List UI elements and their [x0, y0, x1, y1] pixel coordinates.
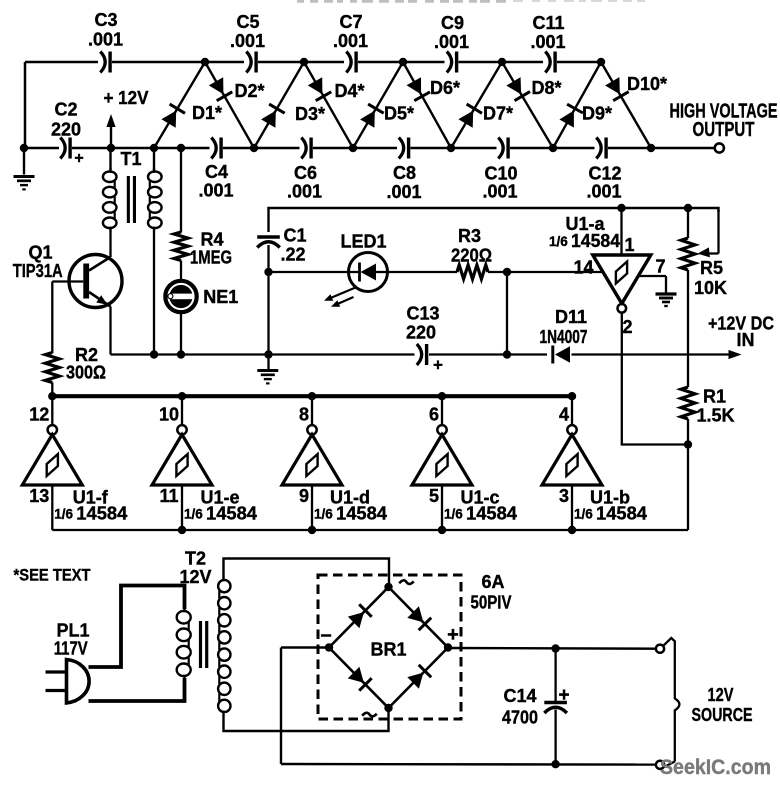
wire top rail node D to C11: [502, 61, 543, 64]
svg-text:C5: C5: [236, 12, 259, 32]
C9 value label: [434, 32, 469, 52]
svg-text:D5*: D5*: [384, 103, 414, 123]
svg-text:R1: R1: [703, 386, 726, 406]
diode D2: [209, 77, 233, 101]
+12V label: [104, 88, 149, 108]
junction R1/pin2/input-bus node: [684, 440, 692, 448]
C10 label: [484, 163, 517, 183]
C6 label: [294, 163, 317, 183]
capacitor C13: [417, 344, 427, 365]
wire bottom rail node I to C4: [181, 147, 210, 150]
wire top rail node C to C9: [403, 61, 445, 64]
U1-e fraction 1/6 14584 label: [184, 504, 257, 524]
bridge plus sign: [447, 624, 459, 646]
bridge diode top-right: [407, 606, 431, 630]
wire diagonal for D3: [254, 62, 304, 148]
wire bottom rail C12 to node N: [608, 147, 651, 150]
wire bottom rail C6 to node K: [313, 147, 353, 150]
svg-text:4: 4: [559, 404, 569, 424]
NE1 label: [203, 287, 238, 307]
bridge BR1 diamond: [329, 587, 448, 708]
C4 value label: [198, 180, 233, 200]
C14 polarity +: [558, 685, 569, 706]
junction bridge left vertex: [325, 643, 333, 651]
D5 label: [384, 103, 414, 123]
junction node E (C11/D9/D10): [597, 58, 605, 66]
svg-text:.22: .22: [280, 244, 305, 264]
svg-text:6A: 6A: [481, 572, 504, 592]
wire top rail C11 to node E: [557, 61, 601, 64]
inverter U1-e: [152, 398, 212, 530]
U1-f input pin 13 label: [29, 486, 49, 506]
potentiometer R5: [681, 208, 719, 270]
D4 label: [334, 81, 364, 101]
svg-text:.001: .001: [287, 181, 322, 201]
resistor R4: [174, 232, 188, 261]
junction node M (D8/D9): [549, 144, 557, 152]
wire R2 to inverter input bus: [51, 383, 53, 397]
SEE TEXT note: [14, 566, 92, 585]
inverter U1-d: [282, 398, 342, 530]
IN label: [737, 330, 755, 350]
C1 value label: [280, 244, 305, 264]
D3 label: [295, 104, 325, 124]
U1-c fraction 1/6 14584 label: [444, 504, 517, 524]
wire T2 secondary bottom to bridge: [224, 708, 389, 731]
wire +12V line C13 to D11: [429, 353, 547, 355]
junction node C (C7/D5/D6/C9): [399, 58, 407, 66]
D10 label: [627, 74, 667, 94]
wire C14 bottom lead: [554, 710, 556, 765]
wire U1-a pin 2 output: [622, 313, 688, 445]
svg-text:C6: C6: [294, 163, 317, 183]
wire bottom rail node K to C8: [353, 147, 397, 150]
svg-text:1/6: 1/6: [314, 507, 333, 522]
junction C1/LED line: [264, 268, 272, 276]
wire top rail C9 to node D: [459, 61, 503, 64]
transformer T1 core: [127, 176, 136, 223]
U1-b fraction 1/6 14584 label: [574, 504, 647, 524]
R1 value label: [696, 405, 734, 425]
U1-c label: [460, 487, 499, 507]
svg-text:13: 13: [29, 486, 49, 506]
transformer T1 secondary winding: [148, 148, 162, 355]
svg-text:C7: C7: [339, 12, 362, 32]
transformer T2 secondary winding: [218, 577, 230, 716]
wire +12V DC IN line with arrow: [572, 350, 742, 359]
C13 value label: [406, 322, 436, 342]
wire bottom rail C4 to node J: [223, 147, 254, 150]
wire bottom rail node F to C2: [24, 147, 59, 150]
bridge diode top-left: [348, 604, 372, 628]
U1-a pin 7 label: [655, 256, 665, 276]
C11 label: [532, 13, 564, 33]
wire R5 to R1: [687, 270, 689, 387]
ground at U1-a pin 7: [656, 294, 677, 306]
C4 label: [205, 162, 228, 182]
svg-text:1/6: 1/6: [54, 507, 73, 522]
svg-text:14584: 14584: [571, 231, 620, 251]
svg-text:1: 1: [624, 235, 634, 255]
U1-a pin 2 label: [622, 317, 632, 337]
wire PL1 to T2 primary top: [89, 586, 185, 668]
junction C14 bottom: [551, 760, 559, 768]
svg-text:D1*: D1*: [192, 103, 222, 123]
svg-text:T1: T1: [120, 149, 141, 169]
U1-c input pin 5 label: [429, 486, 439, 506]
capacitor C14: [544, 703, 567, 714]
wire LED to R3: [388, 271, 458, 273]
U1-a fraction 1/6 14584 label: [549, 231, 620, 251]
junction node J (D2/D3): [250, 144, 258, 152]
D11 label: [555, 307, 587, 327]
svg-text:12V: 12V: [179, 567, 211, 587]
junction node A (C3/D1/D2/C5): [201, 58, 209, 66]
wire NE1 to ground bus: [180, 312, 182, 355]
transistor Q1: [69, 255, 122, 308]
svg-text:14584: 14584: [76, 504, 127, 524]
U1-d label: [330, 487, 370, 507]
svg-text:14584: 14584: [466, 504, 517, 524]
diode D3: [261, 104, 285, 128]
svg-text:1/6: 1/6: [444, 507, 463, 522]
svg-text:+ 12V: + 12V: [104, 88, 149, 108]
op-amp U1-a (Schmitt inverter): [593, 208, 651, 313]
U1-c output pin 6 label: [429, 404, 439, 424]
diode D8: [506, 77, 530, 101]
svg-text:1/6: 1/6: [574, 507, 593, 522]
svg-text:D8*: D8*: [531, 78, 561, 98]
wire C1 to LED line node: [267, 245, 269, 355]
T2 voltage label: [179, 567, 211, 587]
R3 label: [458, 226, 481, 246]
U1-a pin 1 label: [624, 235, 634, 255]
wire T1 primary to Q1 collector: [109, 231, 111, 258]
svg-text:220: 220: [406, 322, 436, 342]
wire bottom rail node H to node I: [154, 147, 181, 150]
U1-b input pin 3 label: [559, 486, 569, 506]
ground at input: [14, 148, 35, 189]
wire oscillator top line: [269, 208, 719, 232]
svg-text:220: 220: [51, 119, 81, 139]
junction output bus at U1-f: [48, 392, 56, 400]
T2 label: [185, 548, 206, 568]
T1 label: [120, 149, 141, 169]
svg-text:14584: 14584: [336, 504, 387, 524]
svg-text:+: +: [433, 356, 443, 375]
wire to high voltage output terminal: [651, 147, 715, 150]
svg-text:SeekIC.com: SeekIC.com: [660, 756, 771, 779]
C1 label: [283, 225, 306, 245]
svg-text:1N4007: 1N4007: [540, 327, 588, 347]
inverter input bus: [52, 529, 688, 531]
junction bridge right vertex: [444, 643, 452, 651]
wire diagonal for D2: [205, 62, 254, 148]
svg-text:11: 11: [159, 486, 178, 506]
wire bridge minus output: [281, 648, 329, 765]
svg-text:.001: .001: [586, 181, 621, 201]
svg-text:.001: .001: [386, 182, 421, 202]
svg-text:12V: 12V: [708, 685, 734, 705]
C13 polarity +: [433, 356, 443, 375]
C6 value label: [287, 181, 322, 201]
svg-text:NE1: NE1: [203, 287, 238, 307]
svg-text:C9: C9: [441, 13, 464, 33]
junction node N (D10/output): [647, 144, 655, 152]
C8 value label: [386, 182, 421, 202]
resistor R2: [45, 353, 59, 383]
wire bottom return line: [281, 763, 656, 766]
R5 value label: [694, 278, 727, 298]
junction output bus at U1-d: [308, 392, 316, 400]
junction node L (D6/D7): [447, 144, 455, 152]
diode D9: [559, 104, 583, 127]
svg-text:.001: .001: [434, 32, 469, 52]
C8 label: [393, 163, 416, 183]
capacitor C9: [447, 52, 457, 73]
wire bottom rail node G to node H: [111, 147, 154, 150]
diode D11: [553, 346, 570, 364]
wire diagonal for D4: [304, 62, 353, 148]
inverter U1-f: [22, 398, 82, 530]
svg-text:.001: .001: [333, 31, 368, 51]
U1-f output pin 12 label: [29, 404, 49, 424]
svg-text:C4: C4: [205, 162, 228, 182]
C12 value label: [586, 181, 621, 201]
wire bottom rail node L to C10: [451, 147, 497, 150]
C5 label: [236, 12, 259, 32]
wire R3 to U1-a pin 14: [488, 271, 603, 273]
wire bottom rail node M to C12: [553, 147, 595, 150]
wire top rail C3 to node A: [112, 61, 205, 64]
C11 value label: [530, 32, 565, 52]
capacitor C10: [498, 138, 508, 159]
D6 label: [430, 78, 460, 98]
junction output bus at U1-c: [438, 392, 446, 400]
svg-text:5: 5: [429, 486, 439, 506]
R2 value label: [66, 362, 106, 382]
plug PL1: [46, 660, 90, 703]
C3 label: [94, 10, 117, 30]
C5 value label: [230, 31, 265, 51]
diode D10: [605, 77, 629, 101]
junction output bus at U1-e: [178, 392, 186, 400]
svg-text:.001: .001: [198, 180, 233, 200]
U1-b output pin 4 label: [559, 404, 569, 424]
svg-text:14584: 14584: [596, 504, 647, 524]
junction bridge top vertex: [384, 583, 392, 591]
svg-text:*SEE TEXT: *SEE TEXT: [14, 566, 92, 585]
bridge diode bottom-right: [407, 665, 431, 689]
capacitor C4: [211, 138, 221, 159]
diode D4: [308, 77, 332, 101]
PL1 label: [56, 620, 89, 640]
U1-e input pin 11 label: [159, 486, 178, 506]
U1-d fraction 1/6 14584 label: [314, 504, 387, 524]
C12 label: [588, 163, 621, 183]
svg-text:D4*: D4*: [334, 81, 364, 101]
svg-text:TIP31A: TIP31A: [13, 261, 63, 281]
svg-text:.001: .001: [530, 32, 565, 52]
svg-text:2: 2: [622, 317, 632, 337]
R1 label: [703, 386, 726, 406]
U1-f label: [73, 487, 109, 507]
wire diagonal for D7: [451, 62, 502, 148]
svg-text:C13: C13: [406, 303, 439, 323]
12V label: [708, 685, 734, 705]
diode D5: [360, 104, 384, 128]
capacitor C11: [545, 52, 555, 73]
junction output bus at U1-b: [568, 392, 576, 400]
bridge diode bottom-left: [348, 667, 372, 691]
svg-text:10K: 10K: [694, 278, 727, 298]
bridge AC tilde top: [399, 579, 414, 586]
D1 label: [192, 103, 222, 123]
junction node D (C9/D7/D8/C11): [498, 58, 506, 66]
C14 label: [503, 686, 536, 706]
C7 value label: [333, 31, 368, 51]
wire top rail node B to C7: [304, 61, 344, 64]
R4 value label: [190, 247, 232, 267]
svg-text:OUTPUT: OUTPUT: [693, 119, 755, 141]
svg-text:C11: C11: [532, 13, 564, 33]
wire top rail C7 to node C: [358, 61, 403, 64]
svg-text:IN: IN: [737, 330, 755, 350]
bridge AC tilde bottom: [362, 711, 377, 718]
LED1 emission arrows: [324, 288, 356, 307]
junction ground node on bus: [264, 350, 272, 358]
svg-text:–: –: [320, 624, 331, 646]
D7 label: [483, 103, 513, 123]
svg-text:C1: C1: [283, 225, 306, 245]
C2 value label: [51, 119, 81, 139]
svg-text:300Ω: 300Ω: [66, 362, 106, 382]
LED1 label: [340, 231, 386, 251]
svg-text:C10: C10: [484, 163, 517, 183]
neon lamp NE1: [165, 281, 196, 312]
high voltage output terminal: [715, 143, 724, 152]
capacitor C3: [100, 52, 110, 73]
C7 label: [339, 12, 362, 32]
transformer T1 primary winding: [103, 148, 117, 232]
wire bottom rail node J to C6: [254, 147, 300, 150]
wire node down to inverter input bus: [687, 445, 689, 531]
svg-text:+: +: [558, 685, 569, 706]
+12V DC label: [708, 313, 774, 333]
capacitor C1: [257, 237, 280, 248]
svg-text:BR1: BR1: [370, 639, 406, 659]
svg-text:14584: 14584: [206, 504, 257, 524]
svg-text:D10*: D10*: [627, 74, 667, 94]
wire diagonal for D6: [403, 62, 451, 148]
svg-text:10: 10: [159, 404, 179, 424]
LED LED1: [349, 253, 388, 292]
junction R3/C13 branch: [503, 268, 511, 276]
svg-text:C2: C2: [54, 99, 77, 119]
C2 polarity +: [74, 150, 83, 167]
wire top rail C5 to node B: [258, 61, 304, 64]
wire diagonal for D1: [154, 62, 205, 148]
capacitor C7: [346, 52, 356, 73]
SeekIC.com watermark: [660, 756, 771, 779]
U1-a pin 14 label: [573, 257, 593, 277]
svg-text:C12: C12: [588, 163, 621, 183]
wire C14 top lead: [554, 649, 556, 702]
svg-text:50PIV: 50PIV: [471, 592, 512, 612]
svg-text:9: 9: [299, 486, 309, 506]
wire T2 secondary top to bridge: [224, 559, 390, 588]
svg-text:12: 12: [29, 404, 49, 424]
svg-text:220Ω: 220Ω: [451, 245, 492, 265]
junction NE1 on bus: [177, 350, 185, 358]
Q1 label: [28, 242, 52, 262]
svg-text:6: 6: [429, 404, 439, 424]
C9 label: [441, 13, 464, 33]
D2 label: [234, 81, 264, 101]
svg-text:SOURCE: SOURCE: [692, 705, 753, 725]
wire Q1 base to R2: [52, 282, 83, 354]
wire diagonal for D10: [601, 62, 651, 148]
svg-text:8: 8: [299, 404, 309, 424]
wire R3 node down to +12V line: [506, 272, 508, 355]
junction input bus at U1-c: [438, 526, 446, 534]
C14 value label: [502, 707, 538, 727]
wire bridge plus output: [448, 647, 656, 650]
12V source lower terminal: [656, 761, 664, 769]
resistor R3: [457, 265, 488, 279]
capacitor C5: [246, 52, 256, 73]
wire Q1 emitter down: [109, 307, 111, 355]
R3 value label: [451, 245, 492, 265]
capacitor C2: [60, 138, 70, 159]
U1-a label: [565, 214, 605, 234]
svg-text:1/6: 1/6: [549, 234, 568, 249]
svg-text:1MEG: 1MEG: [190, 247, 232, 267]
wire top rail node A to C5: [205, 61, 244, 64]
wire bottom rail C10 to node M: [510, 147, 553, 150]
svg-text:1/6: 1/6: [184, 507, 203, 522]
junction node G (+12V/T1 primary): [107, 144, 115, 152]
PL1 voltage label: [54, 638, 88, 658]
junction input bus at U1-e: [178, 526, 186, 534]
junction input bus at U1-d: [308, 526, 316, 534]
svg-text:D3*: D3*: [295, 104, 325, 124]
wire R1 to output node: [687, 419, 689, 445]
D8 label: [531, 78, 561, 98]
bridge minus sign: [320, 624, 331, 646]
transformer T2 core: [199, 621, 208, 668]
wire U1-a pin 7 to ground: [639, 276, 667, 293]
R4 label: [200, 229, 223, 249]
svg-text:R5: R5: [700, 258, 723, 278]
OUTPUT label: [693, 119, 755, 141]
D9 label: [582, 103, 612, 123]
wire diagonal for D5: [353, 62, 403, 148]
svg-text:R3: R3: [458, 226, 481, 246]
junction R5 on top line: [684, 204, 692, 212]
inverter U1-b: [542, 398, 602, 530]
50PIV rating label: [471, 592, 512, 612]
U1-f fraction 1/6 14584 label: [54, 504, 127, 524]
+12V supply arrow: [106, 114, 115, 148]
capacitor C12: [596, 138, 606, 159]
svg-text:14: 14: [573, 257, 593, 277]
C2 label: [54, 99, 77, 119]
junction T1 secondary on bus: [150, 350, 158, 358]
6A rating label: [481, 572, 504, 592]
cut-off title text at top edge: [297, 0, 645, 3]
svg-text:D2*: D2*: [234, 81, 264, 101]
